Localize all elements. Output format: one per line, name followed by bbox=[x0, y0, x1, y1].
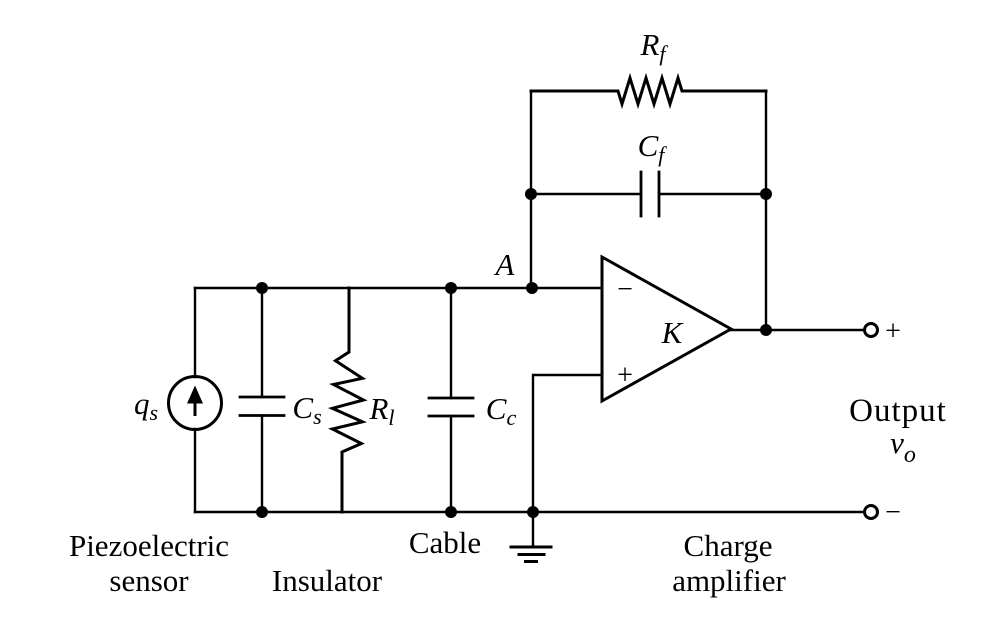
svg-text:Charge: Charge bbox=[684, 528, 773, 563]
svg-text:Output: Output bbox=[849, 393, 947, 429]
svg-text:+: + bbox=[885, 316, 901, 347]
svg-text:A: A bbox=[494, 247, 516, 282]
svg-text:K: K bbox=[661, 315, 685, 350]
svg-text:+: + bbox=[617, 360, 633, 391]
svg-text:Piezoelectric: Piezoelectric bbox=[69, 528, 229, 563]
svg-text:amplifier: amplifier bbox=[672, 563, 786, 598]
svg-text:−: − bbox=[885, 497, 901, 528]
svg-text:Cable: Cable bbox=[409, 525, 481, 560]
svg-text:sensor: sensor bbox=[109, 563, 189, 598]
svg-text:Insulator: Insulator bbox=[272, 563, 383, 598]
svg-text:−: − bbox=[617, 274, 633, 305]
